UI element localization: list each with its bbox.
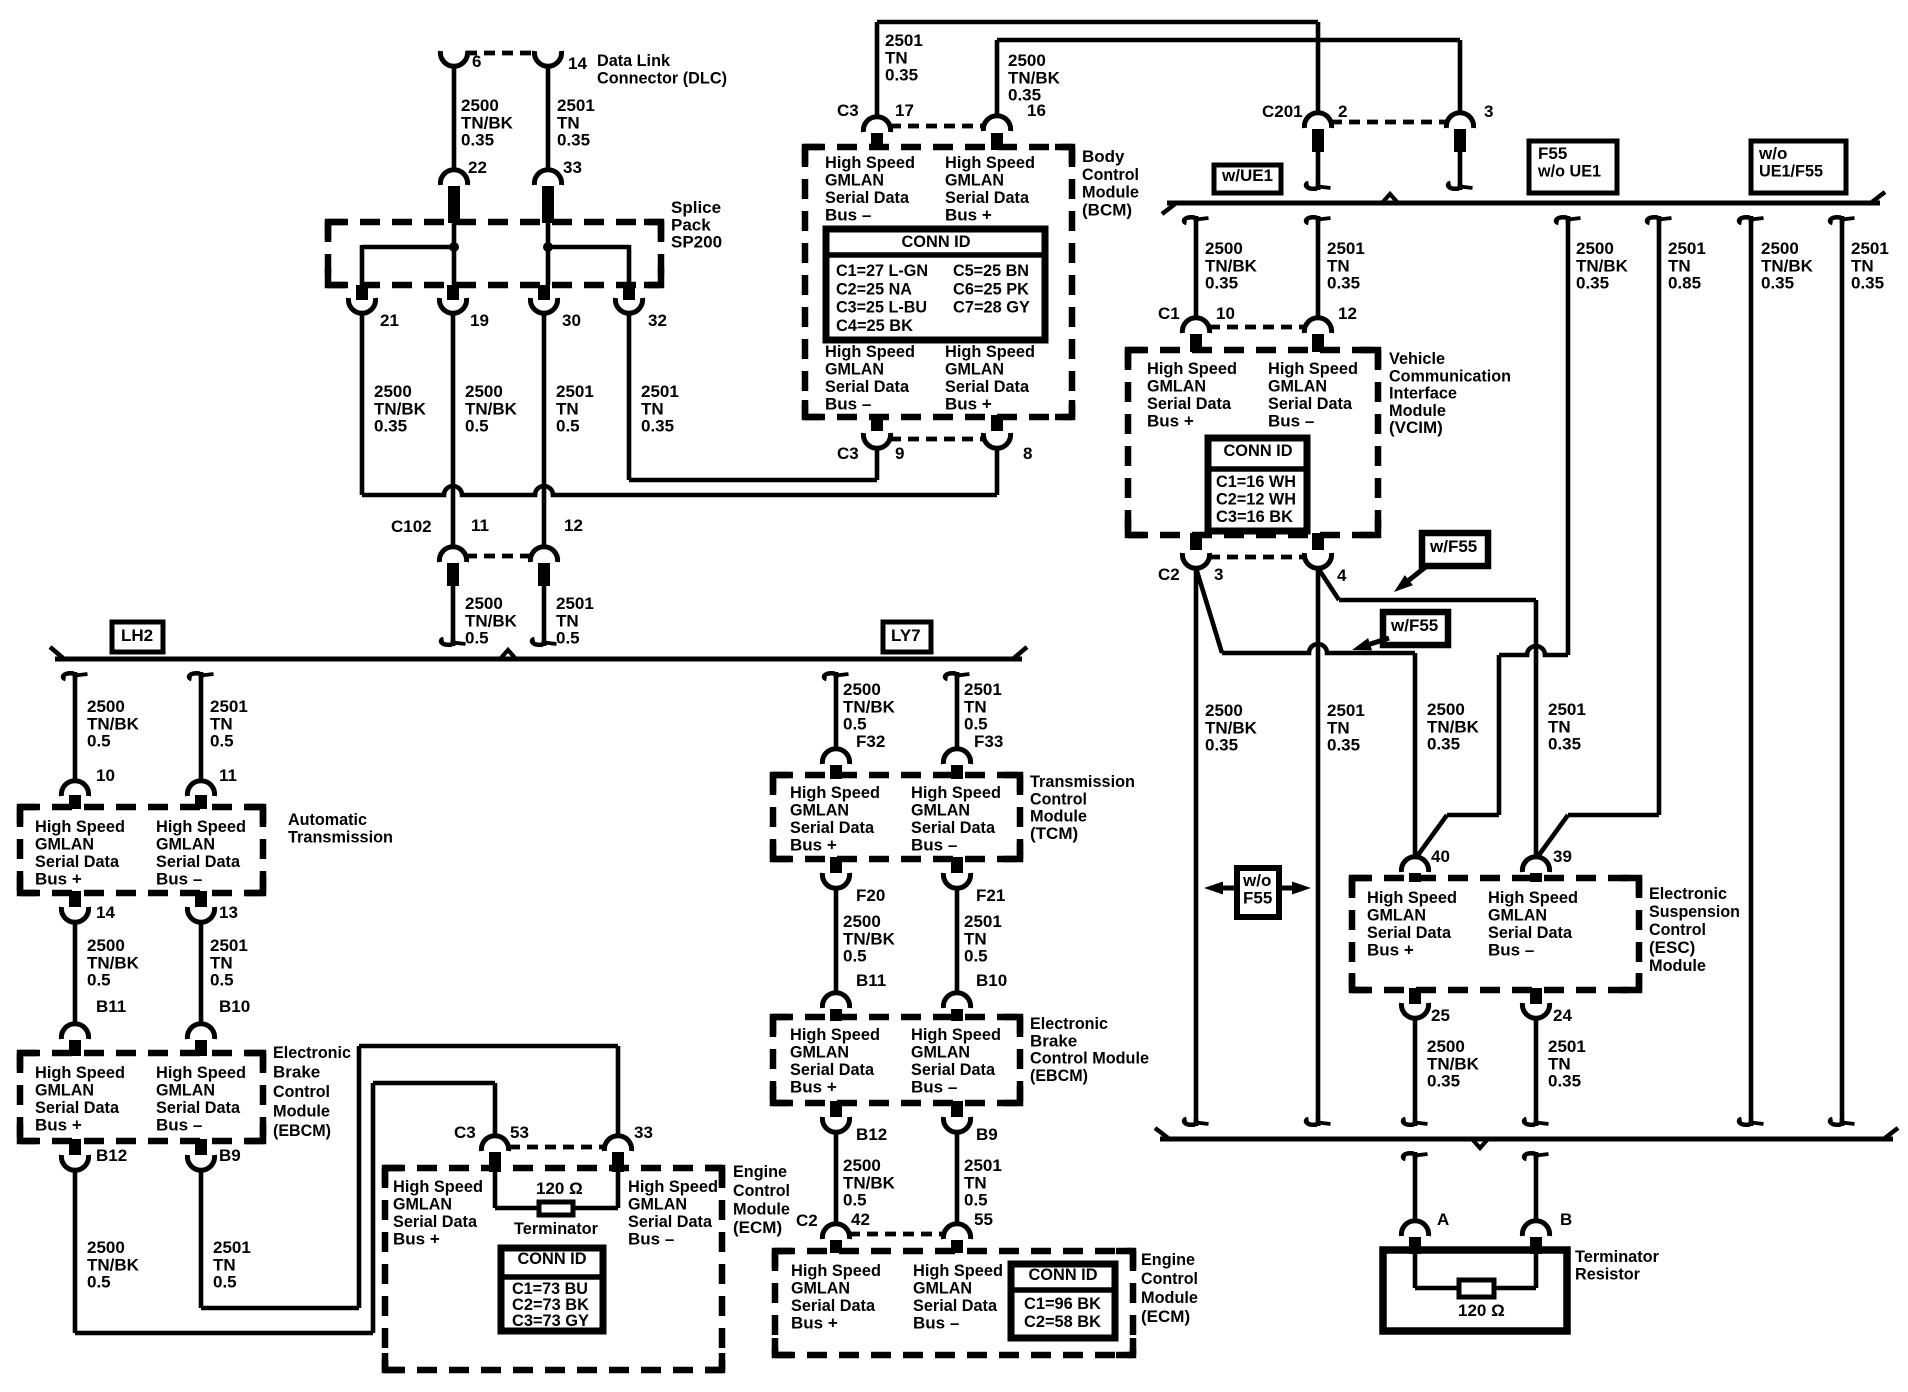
svg-text:10: 10 — [96, 766, 115, 785]
svg-text:0.35: 0.35 — [1851, 274, 1884, 293]
svg-text:Serial Data: Serial Data — [1268, 394, 1353, 413]
svg-text:Serial Data: Serial Data — [911, 1060, 996, 1079]
label TCM pin F21 — [976, 886, 1005, 905]
label SP200 pin 21 — [380, 311, 399, 330]
svg-text:2500: 2500 — [461, 96, 499, 115]
svg-text:Serial Data: Serial Data — [35, 1098, 120, 1117]
text EBCM-mid bus- block — [911, 1025, 1001, 1096]
connector BCM pin 9 — [863, 415, 984, 448]
wire terminator internal right — [1492, 1254, 1536, 1288]
svg-text:GMLAN: GMLAN — [1488, 906, 1547, 925]
svg-text:32: 32 — [648, 311, 667, 330]
text EBCM-left bus- block — [156, 1063, 246, 1134]
svg-text:w/UE1: w/UE1 — [1221, 166, 1273, 185]
label C201 pin 3 — [1484, 102, 1493, 121]
svg-text:High Speed: High Speed — [791, 1261, 881, 1280]
connector EBCM-mid pin B9 — [943, 1101, 970, 1132]
label ESC pin 40 — [1431, 847, 1450, 866]
label TCM pin F20 — [856, 886, 885, 905]
label EBCM pin B12 — [96, 1146, 127, 1165]
text TCM bus- block — [911, 783, 1001, 854]
label connector C2 (VCIM) — [1158, 565, 1180, 584]
svg-text:2501: 2501 — [1327, 239, 1365, 258]
svg-text:Electronic: Electronic — [1649, 884, 1727, 903]
connector BCM pin 16 — [983, 116, 1010, 150]
label ECM1 pin 53 — [510, 1123, 529, 1142]
svg-text:C4=25 BK: C4=25 BK — [836, 316, 914, 335]
svg-text:TN: TN — [557, 113, 580, 132]
connector EBCM-mid pin B10 — [943, 993, 970, 1021]
svg-text:0.5: 0.5 — [87, 971, 111, 990]
svg-text:2500: 2500 — [374, 382, 412, 401]
label VCIM pin 10 — [1216, 304, 1235, 323]
connector ECM2 pin 42 — [822, 1224, 944, 1253]
svg-text:GMLAN: GMLAN — [393, 1195, 452, 1214]
svg-text:TN: TN — [1548, 717, 1571, 736]
svg-text:Serial Data: Serial Data — [628, 1212, 713, 1231]
svg-text:w/o UE1: w/o UE1 — [1537, 161, 1601, 180]
label DLC pin 14 — [568, 54, 587, 73]
svg-text:(ESC): (ESC) — [1649, 938, 1695, 957]
svg-text:TN: TN — [964, 929, 987, 948]
svg-text:High Speed: High Speed — [911, 783, 1001, 802]
label VCIM pin 12 — [1338, 304, 1357, 323]
svg-text:B9: B9 — [976, 1125, 998, 1144]
svg-text:0.35: 0.35 — [1427, 1072, 1460, 1091]
label SP200 pin 22 — [468, 158, 487, 177]
svg-text:2500: 2500 — [1205, 701, 1243, 720]
svg-text:Bus –: Bus – — [156, 1115, 202, 1134]
label connector C3 (BCM bottom) — [837, 444, 859, 463]
svg-text:TN/BK: TN/BK — [1427, 717, 1480, 736]
wire bus to terminator B — [1524, 1152, 1548, 1221]
svg-text:C3=25 L-BU: C3=25 L-BU — [836, 298, 927, 317]
svg-text:2500: 2500 — [1427, 1037, 1465, 1056]
label Body Control Module (BCM) — [1082, 147, 1139, 219]
svg-text:TN: TN — [964, 697, 987, 716]
svg-text:F32: F32 — [856, 732, 885, 751]
svg-text:TN/BK: TN/BK — [1205, 256, 1258, 275]
label box w/o UE1/F55 — [1751, 141, 1846, 193]
wire BCM-16 up-over to C201-3 — [997, 40, 1460, 116]
label wire 2501 TN 0.35 (to ESC39) — [1548, 700, 1586, 753]
svg-text:2501: 2501 — [964, 680, 1002, 699]
label EBCM pin B9 (mid) — [976, 1125, 998, 1144]
svg-text:GMLAN: GMLAN — [35, 1081, 94, 1100]
connector AT pin 10 — [61, 781, 88, 809]
connector EBCM-left pin B12 — [61, 1139, 88, 1170]
label wire 2500 TN/BK 0.5 (B12) — [87, 1238, 140, 1291]
svg-text:Serial Data: Serial Data — [35, 852, 120, 871]
svg-text:Data Link: Data Link — [597, 51, 671, 70]
svg-text:2501: 2501 — [641, 382, 679, 401]
svg-text:C3: C3 — [454, 1123, 476, 1142]
svg-text:TN/BK: TN/BK — [465, 399, 518, 418]
svg-text:TN/BK: TN/BK — [1761, 256, 1814, 275]
label box LY7 — [883, 622, 931, 652]
wire AT-14 to EBCM-B11 — [73, 922, 78, 1024]
wire inside SP200 pin33 to pin30 — [546, 223, 551, 285]
svg-text:0.35: 0.35 — [641, 417, 674, 436]
svg-text:TN: TN — [210, 953, 233, 972]
connector DLC pin 14 terminal — [534, 51, 561, 66]
svg-text:GMLAN: GMLAN — [791, 1279, 850, 1298]
svg-text:High Speed: High Speed — [945, 153, 1035, 172]
label C201 pin 2 — [1338, 102, 1347, 121]
bus line LH2/LY7 — [50, 647, 1027, 659]
connector VCIM pin 12 — [1304, 318, 1331, 352]
label Electronic Brake Control Module (EBCM) mid — [1030, 1014, 1149, 1085]
text ECM1 bus+ block — [393, 1177, 483, 1248]
svg-text:TN/BK: TN/BK — [87, 953, 140, 972]
svg-text:C7=28 GY: C7=28 GY — [953, 298, 1031, 317]
text BCM bus+ upper block — [945, 153, 1035, 224]
wire bus to terminator A — [1403, 1152, 1427, 1221]
label wire 2501 TN 0.5 (AT11) — [210, 697, 248, 750]
svg-text:TN: TN — [1327, 256, 1350, 275]
conn id table VCIM — [1208, 438, 1307, 531]
svg-text:C3=16 BK: C3=16 BK — [1216, 507, 1294, 526]
svg-text:25: 25 — [1431, 1006, 1450, 1025]
svg-text:GMLAN: GMLAN — [945, 171, 1004, 190]
wire 2501 TN DLC-14 to SP200-33 — [546, 66, 551, 170]
connector SP200 pin 33 — [534, 170, 561, 223]
connector BCM pin 8 — [983, 415, 1010, 448]
svg-text:10: 10 — [1216, 304, 1235, 323]
svg-text:Bus –: Bus – — [1268, 411, 1314, 430]
svg-text:2501: 2501 — [964, 912, 1002, 931]
svg-text:High Speed: High Speed — [825, 342, 915, 361]
svg-text:C5=25 BN: C5=25 BN — [953, 261, 1029, 280]
wire ESC-25 to bottom bus — [1403, 1018, 1427, 1126]
svg-text:F21: F21 — [976, 886, 1005, 905]
svg-text:TN/BK: TN/BK — [461, 113, 514, 132]
label BCM pin 8 — [1023, 444, 1032, 463]
svg-text:Bus +: Bus + — [35, 1115, 82, 1134]
label wire 2500 TN/BK 0.5 (B11) — [87, 936, 140, 989]
svg-text:TN/BK: TN/BK — [1205, 718, 1258, 737]
svg-text:Module: Module — [1389, 401, 1446, 420]
svg-text:2500: 2500 — [1761, 239, 1799, 258]
label EBCM pin B11 — [96, 997, 126, 1016]
label Transmission Control Module (TCM) — [1030, 772, 1135, 843]
label wire 2500 TN/BK 0.35 (right col 1) — [1576, 239, 1629, 292]
label wire 2501 TN 0.35 (below VCIM 4) — [1327, 701, 1365, 754]
svg-text:GMLAN: GMLAN — [1147, 377, 1206, 396]
svg-text:3: 3 — [1214, 565, 1223, 584]
svg-text:21: 21 — [380, 311, 399, 330]
label ECM1 pin 33 — [634, 1123, 653, 1142]
label VCIM pin 4 — [1337, 566, 1347, 585]
svg-text:120 Ω: 120 Ω — [536, 1179, 583, 1198]
wire EBCM-B12 to ECM1-53 — [75, 1083, 495, 1333]
svg-text:120 Ω: 120 Ω — [1458, 1301, 1505, 1320]
svg-text:Serial Data: Serial Data — [825, 377, 910, 396]
svg-text:2501: 2501 — [213, 1238, 251, 1257]
bus twisted-pair notch (bottom) — [1472, 1139, 1488, 1148]
svg-text:(TCM): (TCM) — [1030, 824, 1078, 843]
label wire 2500 TN/BK 0.5 (pin19) — [465, 382, 518, 435]
resistor 120 ohm (terminator) — [1459, 1280, 1494, 1297]
svg-text:Brake: Brake — [273, 1063, 320, 1082]
svg-text:TN: TN — [210, 714, 233, 733]
svg-text:11: 11 — [471, 516, 489, 535]
label C102 pin 12 — [564, 516, 583, 535]
label wire 2501 TN 0.85 (right col 2) — [1668, 239, 1706, 292]
svg-text:High Speed: High Speed — [156, 1063, 246, 1082]
svg-text:0.5: 0.5 — [556, 417, 580, 436]
svg-text:Vehicle: Vehicle — [1389, 349, 1445, 368]
label BCM pin 9 — [895, 444, 904, 463]
svg-text:GMLAN: GMLAN — [1367, 906, 1426, 925]
svg-text:Serial Data: Serial Data — [1488, 923, 1573, 942]
svg-text:C1=27 L-GN: C1=27 L-GN — [836, 261, 928, 280]
svg-text:2501: 2501 — [1851, 239, 1889, 258]
svg-text:TN: TN — [556, 611, 579, 630]
text EBCM-left bus+ block — [35, 1063, 125, 1134]
connector C102 pin 11 — [439, 547, 531, 586]
label wire 2501 TN 0.35 (pin32) — [641, 382, 679, 435]
svg-text:High Speed: High Speed — [790, 783, 880, 802]
label Vehicle Communication Interface Module (VCIM) — [1389, 349, 1511, 437]
connector ESC pin 39 — [1522, 857, 1549, 882]
label SP200 pin 30 — [562, 311, 581, 330]
svg-text:0.35: 0.35 — [1327, 736, 1360, 755]
wire 2501 TN SP200-32 to BCM-9 — [629, 313, 877, 480]
svg-text:C1=16 WH: C1=16 WH — [1216, 472, 1296, 491]
svg-text:Serial Data: Serial Data — [790, 1060, 875, 1079]
svg-text:Bus +: Bus + — [945, 394, 992, 413]
svg-text:(EBCM): (EBCM) — [1030, 1066, 1088, 1085]
svg-text:TN: TN — [556, 399, 579, 418]
svg-text:2501: 2501 — [556, 594, 594, 613]
label Electronic Brake Control Module (EBCM) — [273, 1043, 351, 1140]
svg-text:GMLAN: GMLAN — [825, 360, 884, 379]
svg-text:Brake: Brake — [1030, 1031, 1077, 1050]
svg-text:33: 33 — [634, 1123, 653, 1142]
label Electronic Suspension Control (ESC) Module — [1649, 884, 1740, 975]
svg-text:Body: Body — [1082, 147, 1125, 166]
svg-text:GMLAN: GMLAN — [825, 171, 884, 190]
wire VCIM-4 branch to ESC-39 — [1318, 568, 1536, 857]
svg-text:TN/BK: TN/BK — [843, 697, 896, 716]
svg-text:w/o: w/o — [1242, 871, 1271, 890]
wire C102-12 to bus — [532, 586, 556, 646]
svg-text:GMLAN: GMLAN — [911, 1043, 970, 1062]
bus line bottom — [1155, 1128, 1898, 1139]
svg-text:F55: F55 — [1243, 888, 1272, 907]
svg-text:0.35: 0.35 — [1427, 735, 1460, 754]
svg-text:B9: B9 — [219, 1146, 241, 1165]
svg-text:2501: 2501 — [556, 382, 594, 401]
text VCIM bus- block — [1268, 359, 1358, 430]
svg-text:Serial Data: Serial Data — [911, 818, 996, 837]
svg-text:2501: 2501 — [1548, 700, 1586, 719]
connector ESC pin 25 — [1401, 988, 1428, 1018]
svg-text:14: 14 — [96, 903, 115, 922]
svg-text:B10: B10 — [219, 997, 250, 1016]
svg-text:12: 12 — [564, 516, 583, 535]
bus line w/UE1 F55 — [1162, 192, 1885, 214]
svg-text:C2=58 BK: C2=58 BK — [1024, 1312, 1102, 1331]
label wire 2501 TN 0.5 (F33) — [964, 680, 1002, 733]
svg-text:0.35: 0.35 — [1548, 1072, 1581, 1091]
text ECM2 bus- block — [913, 1261, 1003, 1332]
svg-text:2500: 2500 — [465, 382, 503, 401]
svg-text:High Speed: High Speed — [628, 1177, 718, 1196]
svg-text:Serial Data: Serial Data — [790, 818, 875, 837]
double arrow w/o F55 — [1204, 868, 1311, 917]
wire bus-to-bus right col 4 — [1830, 216, 1854, 1126]
wire SP200 branch to pin 32 — [548, 245, 629, 285]
svg-text:0.5: 0.5 — [210, 971, 234, 990]
svg-text:0.35: 0.35 — [1205, 736, 1238, 755]
svg-text:C1: C1 — [1158, 304, 1180, 323]
svg-text:Terminator: Terminator — [514, 1219, 598, 1238]
svg-text:CONN ID: CONN ID — [1029, 1265, 1098, 1284]
svg-text:2501: 2501 — [557, 96, 595, 115]
wire bus to VCIM-10 — [1184, 216, 1208, 318]
svg-text:F55: F55 — [1538, 144, 1567, 163]
connector C102 pin 12 — [530, 547, 557, 586]
connector SP200 pin 22 — [440, 170, 467, 223]
conn id table ECM1 — [501, 1248, 603, 1331]
svg-text:High Speed: High Speed — [393, 1177, 483, 1196]
svg-text:GMLAN: GMLAN — [35, 835, 94, 854]
connector AT pin 11 — [187, 781, 214, 809]
connector EBCM-left pin B10 — [187, 1024, 214, 1056]
wire 2500 TN/BK DLC-6 to SP200-22 — [452, 66, 457, 170]
svg-text:0.35: 0.35 — [1761, 274, 1794, 293]
svg-text:GMLAN: GMLAN — [913, 1279, 972, 1298]
label wire 2501 TN 0.35 (right col 4) — [1851, 239, 1889, 292]
svg-text:Bus +: Bus + — [945, 205, 992, 224]
svg-text:0.35: 0.35 — [374, 417, 407, 436]
text AT bus+ block — [35, 817, 125, 888]
svg-text:Engine: Engine — [1141, 1250, 1195, 1269]
svg-text:Serial Data: Serial Data — [156, 852, 241, 871]
label 120 ohm (ECM1) — [536, 1179, 583, 1198]
svg-text:0.35: 0.35 — [1548, 735, 1581, 754]
label TCM pin F33 — [974, 732, 1003, 751]
svg-text:Bus –: Bus – — [825, 205, 871, 224]
svg-text:2501: 2501 — [885, 31, 923, 50]
wire 2500 TN/BK SP200-19 to C102-11 — [451, 313, 456, 547]
conn id table ECM2 — [1011, 1264, 1115, 1338]
svg-text:0.5: 0.5 — [87, 732, 111, 751]
svg-text:C2: C2 — [1158, 565, 1180, 584]
label connector C3 (ECM1) — [454, 1123, 476, 1142]
svg-text:Serial Data: Serial Data — [945, 188, 1030, 207]
wire C201-2 to bus — [1306, 152, 1330, 190]
connector SP200 pin 32 — [615, 285, 642, 313]
wire EBCM-B9 to ECM1-33 — [201, 1046, 618, 1308]
label Terminator (ECM1) — [514, 1219, 598, 1238]
svg-text:TN/BK: TN/BK — [1576, 256, 1629, 275]
svg-text:Bus +: Bus + — [791, 1313, 838, 1332]
svg-text:Module: Module — [1030, 807, 1087, 826]
wire ESC-24 to bottom bus — [1524, 1018, 1548, 1126]
svg-text:(ECM): (ECM) — [1141, 1307, 1190, 1326]
label Engine Control Module (ECM) 2 — [1141, 1250, 1198, 1326]
module ECM1 box — [385, 1168, 722, 1370]
svg-text:2500: 2500 — [465, 594, 503, 613]
svg-text:C2=25 NA: C2=25 NA — [836, 279, 912, 298]
svg-text:Serial Data: Serial Data — [913, 1296, 998, 1315]
svg-text:GMLAN: GMLAN — [790, 1043, 849, 1062]
svg-text:GMLAN: GMLAN — [1268, 377, 1327, 396]
label wire 2501 TN 0.35 — [557, 96, 595, 149]
svg-text:0.5: 0.5 — [210, 732, 234, 751]
label box F55 w/o UE1 — [1529, 141, 1617, 193]
svg-text:Terminator: Terminator — [1575, 1247, 1659, 1266]
svg-text:0.5: 0.5 — [556, 629, 580, 648]
svg-text:High Speed: High Speed — [35, 817, 125, 836]
svg-text:TN/BK: TN/BK — [374, 399, 427, 418]
svg-text:(EBCM): (EBCM) — [273, 1121, 331, 1140]
svg-text:C2=12 WH: C2=12 WH — [1216, 490, 1296, 509]
label wire 2500 TN/BK 0.35 — [461, 96, 514, 149]
svg-text:53: 53 — [510, 1123, 529, 1142]
module TCM box — [773, 775, 1020, 859]
svg-text:High Speed: High Speed — [1488, 888, 1578, 907]
svg-text:High Speed: High Speed — [1268, 359, 1358, 378]
svg-text:24: 24 — [1553, 1006, 1572, 1025]
connector terminator pin A — [1401, 1221, 1428, 1254]
wire VCIM-3 down to bottom bus — [1184, 568, 1208, 1126]
svg-text:(BCM): (BCM) — [1082, 200, 1132, 219]
label wire 2500 TN/BK 0.5 (F20) — [843, 912, 896, 965]
text VCIM bus+ block — [1147, 359, 1237, 430]
connector SP200 pin 21 — [348, 285, 375, 313]
svg-text:Electronic: Electronic — [1030, 1014, 1108, 1033]
svg-text:Bus +: Bus + — [393, 1229, 440, 1248]
module VCIM box — [1128, 350, 1378, 535]
svg-text:2501: 2501 — [964, 1156, 1002, 1175]
junction dot SP200 left — [449, 242, 459, 252]
svg-text:0.5: 0.5 — [964, 947, 988, 966]
svg-text:30: 30 — [562, 311, 581, 330]
svg-text:C3: C3 — [837, 101, 859, 120]
connector TCM pin F32 — [822, 749, 849, 779]
svg-text:2500: 2500 — [1205, 239, 1243, 258]
svg-text:TN/BK: TN/BK — [843, 1173, 896, 1192]
wire AT-13 to EBCM-B10 — [199, 922, 204, 1024]
connector C201 pin 2 — [1304, 113, 1447, 152]
svg-text:0.5: 0.5 — [964, 1191, 988, 1210]
bus twisted-pair peak — [500, 650, 516, 659]
label wire 2500 TN/BK 0.35 (right col 3) — [1761, 239, 1814, 292]
svg-text:22: 22 — [468, 158, 487, 177]
svg-text:0.5: 0.5 — [87, 1273, 111, 1292]
label EBCM pin B9 — [219, 1146, 241, 1165]
label EBCM pin B12 (mid) — [856, 1125, 887, 1144]
text AT bus- block — [156, 817, 246, 888]
svg-text:2501: 2501 — [1548, 1037, 1586, 1056]
svg-text:LY7: LY7 — [891, 626, 921, 645]
svg-text:0.35: 0.35 — [885, 66, 918, 85]
wire bus to TCM-F32 — [824, 672, 848, 749]
svg-text:Suspension: Suspension — [1649, 902, 1740, 921]
svg-text:TN: TN — [964, 1173, 987, 1192]
wire BCM-17 up-over to C201-2 — [877, 22, 1318, 117]
connector SP200 pin 19 — [439, 285, 466, 313]
connector EBCM-left pin B9 — [187, 1139, 214, 1170]
svg-text:C2: C2 — [796, 1211, 818, 1230]
svg-text:16: 16 — [1027, 101, 1046, 120]
wire EBCM-B12 to ECM2-42 — [834, 1132, 839, 1224]
svg-text:42: 42 — [851, 1210, 870, 1229]
